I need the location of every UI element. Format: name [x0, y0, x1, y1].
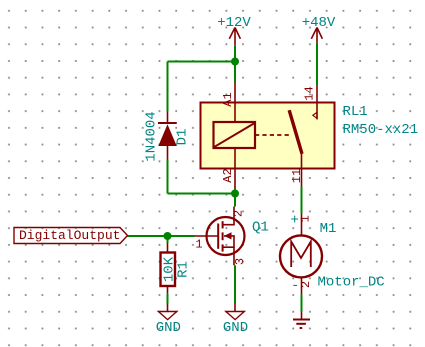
ground GND left [156, 304, 181, 337]
ground GND right [223, 304, 248, 337]
wire relay pin 11 to motor [301, 187, 303, 214]
wire junction down to R1 [167, 236, 169, 243]
svg-text:Q1: Q1 [252, 220, 269, 236]
wire diode anode down [167, 160, 169, 194]
node junction at gate/R1 [164, 232, 172, 240]
svg-text:A1: A1 [221, 92, 235, 106]
svg-text:1N4004: 1N4004 [144, 111, 160, 161]
transistor Q1 [195, 207, 245, 266]
relay coil [214, 122, 256, 148]
wire Q1 source to GND [234, 265, 236, 303]
wire +48V to relay pin 14 [316, 43, 318, 86]
pin A2 [234, 148, 236, 189]
svg-text:DigitalOutput: DigitalOutput [19, 228, 120, 243]
svg-text:RM50-xx21: RM50-xx21 [343, 122, 419, 138]
relay coupling dashed line [255, 134, 292, 136]
wire motor to earth ground [301, 294, 303, 311]
wire diode bottom horizontal to A2 net [168, 193, 236, 195]
power +48V [302, 15, 336, 43]
motor M1 [280, 214, 322, 295]
relay contact triangle [313, 112, 317, 118]
node junction on +12V wire [231, 58, 239, 66]
diode D1 [158, 112, 177, 160]
pin A1 [234, 83, 236, 123]
pin 11 [301, 152, 303, 187]
node junction at A2/diode/drain [231, 190, 239, 198]
svg-text:D1: D1 [175, 129, 191, 146]
svg-text:14: 14 [303, 86, 317, 100]
svg-text:R1: R1 [176, 261, 192, 278]
earth ground under motor [293, 312, 310, 329]
svg-text:GND: GND [156, 320, 181, 336]
svg-text:+48V: +48V [302, 15, 336, 31]
svg-text:+: + [290, 213, 298, 229]
svg-text:GND: GND [223, 320, 248, 336]
relay switch arm [289, 110, 302, 154]
wire R1 to GND [167, 294, 169, 304]
resistor R1 [161, 243, 176, 294]
svg-text:-: - [291, 278, 299, 294]
svg-text:A2: A2 [221, 168, 235, 182]
svg-text:M1: M1 [320, 221, 337, 237]
svg-text:1: 1 [195, 238, 202, 252]
svg-text:11: 11 [290, 169, 304, 183]
svg-text:Motor_DC: Motor_DC [318, 275, 385, 291]
wire DigitalOutput to Q1 gate [128, 235, 195, 237]
wire relay A2 to Q1 drain [234, 189, 236, 207]
wire junction branch horizontal to diode [168, 61, 236, 63]
pin 14 [316, 85, 318, 119]
svg-text:3: 3 [233, 258, 247, 265]
svg-text:RL1: RL1 [343, 104, 368, 120]
svg-text:2: 2 [232, 210, 246, 217]
wire down to diode cathode [167, 62, 169, 112]
wire +12V to relay pin A1 [234, 46, 236, 83]
global label DigitalOutput [14, 228, 128, 244]
relay RL1 body [201, 103, 335, 169]
svg-text:2: 2 [299, 281, 313, 288]
power +12V [217, 15, 251, 46]
svg-text:1: 1 [299, 215, 313, 222]
